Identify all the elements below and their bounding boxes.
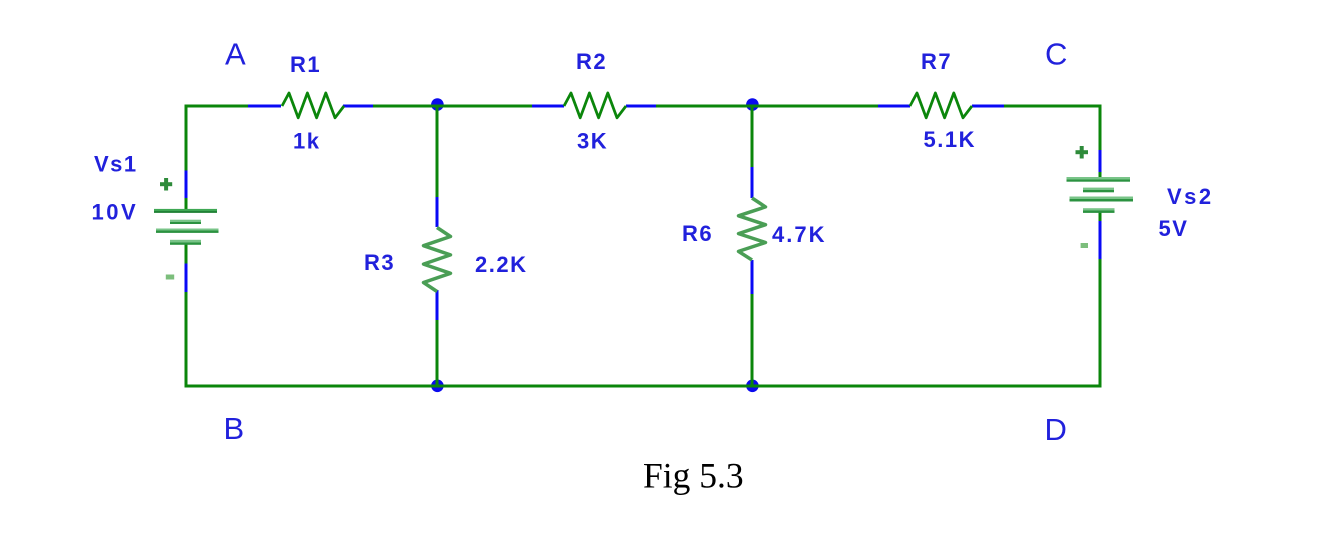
svg-text:R1: R1 xyxy=(290,52,321,77)
svg-text:R6: R6 xyxy=(682,221,713,246)
svg-text:4.7K: 4.7K xyxy=(772,222,826,247)
svg-text:A: A xyxy=(225,37,246,72)
svg-text:5.1K: 5.1K xyxy=(924,127,976,152)
svg-text:Vs2: Vs2 xyxy=(1167,184,1214,209)
svg-text:3K: 3K xyxy=(577,129,608,154)
svg-text:10V: 10V xyxy=(92,200,139,225)
svg-text:D: D xyxy=(1045,412,1067,447)
svg-text:C: C xyxy=(1045,37,1067,72)
svg-text:Vs1: Vs1 xyxy=(94,152,138,177)
svg-text:B: B xyxy=(224,411,245,446)
svg-text:R3: R3 xyxy=(364,250,395,275)
svg-text:R7: R7 xyxy=(921,49,952,74)
svg-text:R2: R2 xyxy=(576,49,607,74)
svg-text:2.2K: 2.2K xyxy=(475,252,527,277)
svg-text:1k: 1k xyxy=(293,129,320,154)
svg-text:Fig 5.3: Fig 5.3 xyxy=(643,456,744,496)
svg-text:5V: 5V xyxy=(1159,216,1189,241)
